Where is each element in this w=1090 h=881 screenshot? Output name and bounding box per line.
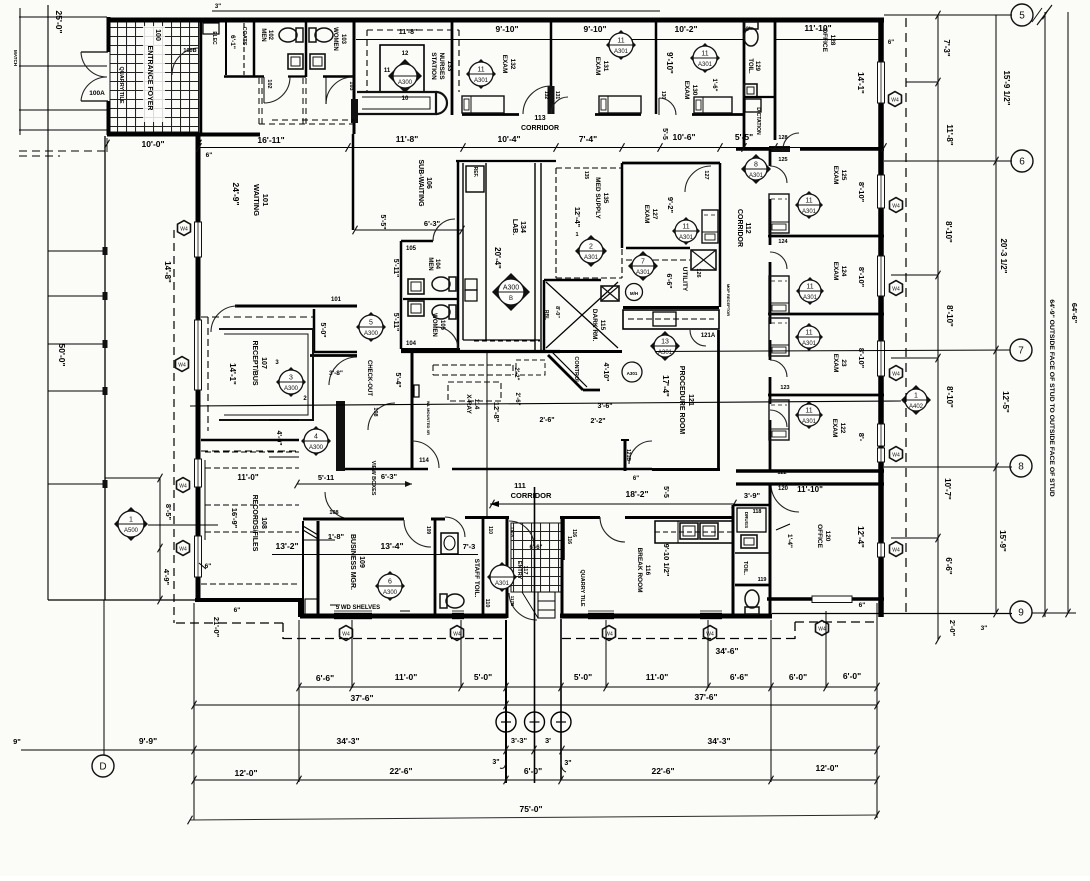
- svg-text:W4: W4: [892, 548, 900, 554]
- svg-text:9'-9": 9'-9": [139, 736, 157, 746]
- svg-text:124: 124: [840, 266, 847, 277]
- svg-text:RECORDS/FILES: RECORDS/FILES: [251, 495, 258, 552]
- svg-text:127: 127: [703, 170, 709, 179]
- svg-text:118: 118: [753, 509, 762, 515]
- records area lower dashes and door 108: [201, 583, 300, 585]
- svg-text:135: 135: [583, 171, 589, 180]
- svg-text:20'-4": 20'-4": [493, 247, 502, 269]
- svg-text:4: 4: [314, 434, 318, 441]
- svg-text:13'-2": 13'-2": [275, 541, 298, 551]
- break room 116: [563, 518, 565, 561]
- svg-text:A300: A300: [284, 386, 299, 392]
- svg-text:3": 3": [492, 759, 499, 766]
- svg-text:5 WD SHELVES: 5 WD SHELVES: [336, 605, 380, 611]
- hatched entrance foyer 100 floor: [110, 22, 199, 132]
- svg-text:9'-10": 9'-10": [583, 24, 606, 34]
- foyer text: [143, 26, 165, 122]
- svg-text:121B: 121B: [625, 449, 631, 461]
- svg-text:124: 124: [778, 239, 788, 245]
- svg-text:8: 8: [754, 162, 758, 169]
- svg-text:MATCH: MATCH: [13, 50, 18, 66]
- control alcove: [548, 355, 583, 390]
- svg-text:11: 11: [477, 67, 484, 74]
- east exterior wall with windows: [878, 20, 884, 617]
- svg-text:EXAM: EXAM: [683, 81, 690, 100]
- view boxes wall: [336, 401, 345, 471]
- svg-text:ELEC: ELEC: [211, 31, 217, 45]
- svg-text:STAFF TOIL.: STAFF TOIL.: [473, 559, 480, 598]
- wall below reception: [201, 439, 299, 442]
- business manager 109: [317, 521, 320, 614]
- svg-text:110: 110: [484, 599, 490, 608]
- svg-text:A301: A301: [495, 581, 510, 587]
- exam 123: [795, 323, 823, 351]
- svg-text:115: 115: [599, 320, 606, 331]
- svg-text:23: 23: [840, 359, 847, 367]
- svg-text:8'-10": 8'-10": [945, 386, 954, 408]
- svg-text:5'-5: 5'-5: [661, 128, 668, 140]
- svg-text:MOP RECEPTOR: MOP RECEPTOR: [726, 284, 731, 316]
- svg-text:EXAM: EXAM: [832, 166, 839, 185]
- svg-text:6": 6": [206, 152, 213, 159]
- svg-text:DICTATION: DICTATION: [755, 107, 761, 135]
- svg-text:A500: A500: [124, 528, 139, 534]
- svg-text:5: 5: [369, 320, 373, 327]
- svg-text:134: 134: [519, 221, 526, 233]
- svg-text:A301: A301: [658, 350, 673, 356]
- svg-text:7: 7: [1018, 346, 1024, 357]
- svg-text:113: 113: [534, 115, 545, 122]
- svg-text:7: 7: [641, 259, 645, 266]
- canopy dashed outline west: [173, 230, 175, 623]
- svg-text:BREAK ROOM: BREAK ROOM: [636, 547, 643, 592]
- svg-text:6'-0": 6'-0": [843, 671, 861, 681]
- svg-text:104: 104: [406, 341, 417, 347]
- west exterior wall with windows: [196, 133, 201, 600]
- svg-text:102: 102: [267, 30, 273, 41]
- svg-text:W4: W4: [892, 372, 900, 378]
- svg-text:6": 6": [633, 476, 639, 482]
- right grid bubbles: [1011, 4, 1033, 26]
- svg-text:2'-0": 2'-0": [948, 620, 957, 637]
- svg-text:A301: A301: [698, 62, 713, 68]
- svg-text:A301: A301: [802, 209, 817, 215]
- svg-text:10'-4": 10'-4": [497, 134, 520, 144]
- svg-text:12'-4": 12'-4": [573, 207, 582, 228]
- bottom dim line 1: [299, 686, 877, 688]
- svg-text:120: 120: [824, 531, 831, 542]
- svg-text:5'-0": 5'-0": [574, 672, 592, 682]
- svg-text:7'-4": 7'-4": [579, 134, 597, 144]
- A500 marker left: [114, 507, 148, 541]
- svg-text:122: 122: [777, 470, 786, 476]
- svg-text:5'-5: 5'-5: [662, 486, 669, 498]
- svg-text:107: 107: [260, 357, 267, 369]
- bottom dim line 3 - 34'-3: [21, 749, 877, 751]
- svg-text:A301: A301: [627, 371, 638, 376]
- restroom doors and dashed alcove: [224, 75, 264, 78]
- check-out area: [353, 355, 357, 357]
- svg-text:20'-3 1/2": 20'-3 1/2": [999, 238, 1008, 273]
- svg-text:EXAM: EXAM: [501, 55, 508, 74]
- svg-text:121A: 121A: [701, 333, 716, 339]
- svg-text:W4: W4: [892, 287, 900, 293]
- svg-text:129: 129: [754, 61, 760, 72]
- svg-text:6'-0": 6'-0": [789, 672, 807, 682]
- svg-text:128: 128: [829, 35, 836, 46]
- svg-text:11: 11: [805, 330, 812, 337]
- svg-text:D: D: [99, 762, 106, 773]
- svg-text:3'-3": 3'-3": [511, 736, 528, 745]
- svg-text:5: 5: [1019, 11, 1025, 22]
- svg-text:COATS: COATS: [241, 27, 247, 46]
- nurses station 133: [367, 29, 459, 31]
- svg-text:12'-4": 12'-4": [856, 526, 865, 548]
- svg-text:1'-8": 1'-8": [328, 532, 345, 541]
- svg-text:MEN: MEN: [427, 257, 433, 270]
- svg-text:6'-6": 6'-6": [944, 557, 953, 574]
- svg-text:6'-6": 6'-6": [730, 672, 748, 682]
- svg-text:8: 8: [1018, 462, 1024, 473]
- right side grid and dimension lines: [905, 18, 907, 615]
- right hexagon symbols: [889, 92, 902, 107]
- svg-text:15'-9": 15'-9": [998, 530, 1007, 552]
- svg-text:TOIL.: TOIL.: [742, 561, 748, 575]
- svg-text:11'-8": 11'-8": [945, 124, 954, 145]
- svg-text:5'-4": 5'-4": [394, 372, 401, 387]
- svg-text:3": 3": [981, 625, 988, 632]
- svg-text:131: 131: [554, 91, 560, 100]
- svg-text:10'-7": 10'-7": [943, 478, 952, 500]
- svg-text:132: 132: [509, 59, 516, 70]
- svg-text:5'-0": 5'-0": [474, 672, 492, 682]
- svg-text:13'-4": 13'-4": [380, 541, 403, 551]
- svg-text:131: 131: [602, 61, 609, 72]
- svg-text:119: 119: [758, 577, 767, 583]
- svg-text:PROCEDURE ROOM: PROCEDURE ROOM: [678, 366, 685, 435]
- svg-text:14'-1": 14'-1": [856, 72, 865, 94]
- svg-text:132: 132: [543, 91, 549, 100]
- svg-text:A301: A301: [474, 78, 489, 84]
- svg-text:11'-8": 11'-8": [399, 29, 418, 36]
- bottom hexagon symbols: [340, 626, 353, 641]
- svg-text:WAITING: WAITING: [252, 184, 261, 216]
- svg-text:W4: W4: [892, 453, 900, 459]
- svg-text:9'-10 1/2": 9'-10 1/2": [662, 544, 671, 577]
- svg-text:103: 103: [340, 34, 346, 45]
- svg-text:EXAM: EXAM: [832, 354, 839, 373]
- exam 122: [795, 401, 823, 429]
- svg-text:TOIL.: TOIL.: [747, 58, 753, 74]
- svg-text:22'-6": 22'-6": [651, 766, 674, 776]
- svg-text:A300: A300: [398, 80, 413, 86]
- svg-text:CHECK-OUT: CHECK-OUT: [366, 360, 372, 396]
- svg-text:9'-10": 9'-10": [495, 24, 518, 34]
- top exterior wall: [107, 18, 884, 23]
- svg-text:12'-5": 12'-5": [1001, 391, 1010, 413]
- exterior wall - entrance foyer west: [107, 17, 111, 52]
- svg-text:125: 125: [840, 170, 847, 181]
- left vertical dim 8'-5 4'-9: [159, 478, 161, 600]
- marker A402: [901, 385, 931, 415]
- svg-text:W4: W4: [892, 204, 900, 210]
- svg-text:CONTROL: CONTROL: [573, 356, 579, 384]
- svg-text:125: 125: [778, 157, 787, 163]
- svg-text:W4: W4: [706, 632, 714, 638]
- svg-text:13: 13: [661, 339, 669, 346]
- svg-text:A301: A301: [749, 173, 764, 179]
- grid line D bubble: [103, 600, 105, 755]
- svg-text:121: 121: [687, 394, 694, 406]
- procedure room 121: [717, 330, 720, 471]
- svg-text:MEN: MEN: [260, 28, 266, 41]
- svg-text:OFFICE: OFFICE: [816, 524, 823, 548]
- bottom dim line 4: [194, 779, 877, 781]
- svg-text:116: 116: [644, 565, 651, 576]
- svg-text:EXAM: EXAM: [594, 57, 601, 76]
- svg-text:ENTRY: ENTRY: [516, 561, 522, 580]
- south wall office 120 section: [767, 597, 884, 601]
- svg-text:W4: W4: [818, 627, 826, 633]
- svg-text:11: 11: [682, 224, 689, 231]
- exam 124: [796, 277, 824, 305]
- svg-text:A300: A300: [383, 590, 398, 596]
- svg-text:DRUGS: DRUGS: [744, 512, 749, 528]
- svg-text:117A: 117A: [510, 527, 515, 538]
- svg-text:9": 9": [13, 737, 21, 746]
- records 108: [205, 451, 299, 453]
- canopy dashed outline south: [173, 622, 283, 624]
- svg-text:11'-0": 11'-0": [237, 473, 258, 482]
- marker A300-5 checkout: [356, 312, 386, 342]
- svg-text:6": 6": [859, 602, 866, 609]
- svg-text:109: 109: [358, 556, 365, 568]
- svg-text:128: 128: [778, 135, 787, 141]
- svg-text:3": 3": [215, 4, 221, 10]
- counter 121A: [623, 306, 719, 309]
- svg-text:6'-6": 6'-6": [665, 273, 672, 288]
- svg-text:34'-6": 34'-6": [715, 646, 738, 656]
- svg-text:15'-9 1/2": 15'-9 1/2": [1002, 70, 1011, 105]
- svg-text:A301: A301: [803, 295, 818, 301]
- svg-text:133: 133: [446, 61, 453, 72]
- svg-text:A301: A301: [636, 270, 651, 276]
- svg-text:8'-10": 8'-10": [857, 267, 866, 288]
- svg-text:3: 3: [289, 375, 293, 382]
- svg-text:EXAM: EXAM: [643, 205, 650, 224]
- bottom dimension extension lines: [193, 603, 195, 820]
- south wall main: [300, 614, 507, 619]
- lab east wall: [534, 163, 536, 350]
- drugs closet 118 and toilet 119: [732, 505, 735, 616]
- svg-text:5'-11": 5'-11": [392, 313, 399, 332]
- svg-text:A402: A402: [909, 404, 924, 410]
- svg-text:8'-: 8'-: [857, 433, 866, 442]
- svg-text:6": 6": [234, 607, 241, 614]
- svg-text:5'-5": 5'-5": [735, 132, 753, 142]
- svg-text:6'-6": 6'-6": [530, 545, 543, 551]
- svg-text:37'-6": 37'-6": [694, 692, 717, 702]
- svg-text:CORRIDOR: CORRIDOR: [521, 125, 559, 132]
- svg-text:21'-0": 21'-0": [212, 617, 221, 638]
- svg-text:127: 127: [651, 209, 658, 220]
- svg-text:2: 2: [589, 244, 593, 251]
- svg-text:11'-10": 11'-10": [797, 485, 823, 494]
- svg-text:100: 100: [154, 29, 161, 41]
- svg-text:105: 105: [406, 246, 417, 252]
- svg-text:34'-3": 34'-3": [707, 736, 730, 746]
- svg-text:5'-11: 5'-11: [318, 473, 334, 482]
- svg-text:102: 102: [266, 79, 272, 88]
- entrance double doors 100A: [81, 51, 108, 53]
- svg-text:6'-1": 6'-1": [229, 35, 236, 49]
- svg-text:117B: 117B: [510, 596, 515, 607]
- svg-text:EXAM: EXAM: [831, 419, 838, 438]
- svg-text:A300: A300: [309, 445, 324, 451]
- svg-text:11: 11: [701, 51, 708, 58]
- bottom bubbles with crosses: [496, 712, 516, 732]
- waiting east wall: [352, 134, 355, 230]
- svg-text:RBL: RBL: [543, 310, 549, 320]
- dark room 115: [543, 280, 546, 352]
- svg-text:18'-2": 18'-2": [625, 489, 648, 499]
- svg-text:W4: W4: [180, 227, 188, 233]
- svg-text:CORRIDOR: CORRIDOR: [736, 209, 743, 247]
- svg-text:1: 1: [575, 232, 578, 238]
- svg-text:11: 11: [806, 284, 813, 291]
- svg-text:12'-0": 12'-0": [234, 768, 257, 778]
- staff toilet 110: [434, 518, 437, 615]
- svg-text:2'-2": 2'-2": [513, 368, 519, 381]
- svg-text:108: 108: [260, 517, 267, 529]
- svg-text:104: 104: [434, 259, 440, 270]
- dictation nook: [745, 99, 761, 112]
- svg-text:101: 101: [261, 194, 270, 207]
- svg-text:11'-8": 11'-8": [396, 134, 419, 144]
- waiting niche wall 101: [235, 305, 357, 308]
- x-ray 114: [411, 352, 414, 469]
- svg-text:8'-10": 8'-10": [944, 221, 953, 243]
- svg-text:11: 11: [805, 408, 812, 415]
- svg-text:101: 101: [331, 297, 342, 303]
- svg-text:8'-0": 8'-0": [554, 306, 560, 318]
- svg-text:3": 3": [564, 760, 571, 767]
- svg-text:6: 6: [388, 579, 392, 586]
- svg-text:QUARRY TILE: QUARRY TILE: [579, 570, 585, 607]
- svg-text:W4: W4: [179, 547, 187, 553]
- svg-text:1: 1: [129, 517, 133, 524]
- svg-text:2'-6": 2'-6": [539, 417, 554, 424]
- svg-text:108: 108: [329, 510, 338, 516]
- svg-text:NURSES: NURSES: [438, 52, 445, 80]
- foyer bottom wall: [107, 133, 260, 137]
- svg-text:1'-4": 1'-4": [786, 534, 793, 548]
- coats closet: [243, 23, 245, 75]
- svg-text:VIEW BOXES: VIEW BOXES: [370, 461, 376, 496]
- svg-text:11'-0": 11'-0": [646, 672, 669, 682]
- svg-text:W4: W4: [891, 98, 899, 104]
- svg-text:100A: 100A: [89, 90, 105, 97]
- bottom dim line 2 - 37'-6: [194, 704, 877, 706]
- svg-text:CORRIDOR: CORRIDOR: [511, 491, 552, 500]
- south-west wall step: [195, 598, 303, 602]
- corridor 111 south wall: [303, 518, 404, 521]
- svg-text:120: 120: [778, 486, 789, 492]
- svg-text:109: 109: [425, 526, 431, 535]
- svg-text:34'-3": 34'-3": [336, 736, 359, 746]
- svg-text:STATION: STATION: [430, 52, 437, 80]
- svg-text:17'-4": 17'-4": [661, 375, 670, 397]
- svg-text:WL MOUNTED XR: WL MOUNTED XR: [426, 401, 431, 435]
- svg-text:16'-11": 16'-11": [257, 135, 284, 145]
- svg-text:50'-0": 50'-0": [57, 343, 67, 366]
- svg-text:1'-6": 1'-6": [711, 79, 717, 92]
- exam 125: [795, 191, 823, 219]
- svg-text:A300: A300: [364, 331, 379, 337]
- svg-text:103: 103: [348, 81, 354, 90]
- svg-text:112: 112: [744, 222, 751, 233]
- svg-text:A301: A301: [679, 235, 694, 241]
- svg-text:DARK RM.: DARK RM.: [591, 309, 598, 342]
- svg-text:A301: A301: [584, 255, 599, 261]
- svg-text:11'-0": 11'-0": [395, 672, 418, 682]
- svg-text:64'-6": 64'-6": [1070, 303, 1079, 324]
- svg-text:ENTRANCE FOYER: ENTRANCE FOYER: [146, 46, 153, 111]
- svg-text:REF.: REF.: [472, 167, 478, 178]
- svg-text:A301: A301: [802, 419, 817, 425]
- svg-text:1: 1: [914, 393, 918, 400]
- svg-text:OFFICE: OFFICE: [821, 28, 828, 52]
- svg-text:WOMEN: WOMEN: [332, 27, 338, 51]
- svg-text:7'-3: 7'-3: [463, 542, 476, 551]
- svg-text:6'-3": 6'-3": [381, 472, 398, 481]
- svg-text:9'-2": 9'-2": [666, 197, 675, 214]
- svg-text:4'-9": 4'-9": [162, 569, 171, 586]
- svg-text:111: 111: [514, 481, 526, 490]
- foyer door 100B arc: [172, 48, 199, 75]
- svg-text:B: B: [509, 296, 513, 302]
- med supply 135: [556, 167, 622, 169]
- svg-text:M/H: M/H: [630, 291, 638, 296]
- svg-text:3': 3': [545, 736, 551, 745]
- svg-text:3'-9": 3'-9": [744, 491, 761, 500]
- svg-text:116: 116: [566, 536, 572, 544]
- svg-text:6: 6: [1019, 157, 1025, 168]
- svg-text:22'-6": 22'-6": [389, 766, 412, 776]
- svg-text:QUARRY TILE: QUARRY TILE: [118, 67, 124, 104]
- svg-text:135: 135: [602, 193, 609, 204]
- top interior partitions: [200, 18, 203, 134]
- svg-text:14'-8": 14'-8": [163, 261, 172, 283]
- svg-text:25'-0": 25'-0": [54, 10, 64, 33]
- svg-text:5'-5": 5'-5": [379, 214, 386, 229]
- svg-text:126: 126: [695, 268, 701, 277]
- svg-text:5'-0": 5'-0": [319, 322, 326, 337]
- svg-text:A301: A301: [614, 49, 629, 55]
- svg-text:3'-6": 3'-6": [597, 403, 612, 410]
- exam wing corridor wall: [769, 149, 772, 166]
- svg-text:RECEPT/BUS: RECEPT/BUS: [251, 340, 258, 385]
- svg-text:12'-0": 12'-0": [815, 763, 838, 773]
- svg-text:BUSINESS MGR.: BUSINESS MGR.: [349, 534, 356, 590]
- left hexagon symbols: [178, 221, 191, 236]
- svg-text:MED SUPPLY: MED SUPPLY: [594, 177, 601, 219]
- svg-text:114: 114: [419, 458, 429, 464]
- svg-text:64'-9" OUTSIDE FACE OF STUD TO: 64'-9" OUTSIDE FACE OF STUD TO OUTSIDE F…: [1048, 299, 1055, 496]
- svg-text:UTILITY: UTILITY: [681, 267, 688, 292]
- svg-text:5'-11": 5'-11": [392, 259, 399, 278]
- svg-text:12'-8": 12'-8": [492, 402, 501, 423]
